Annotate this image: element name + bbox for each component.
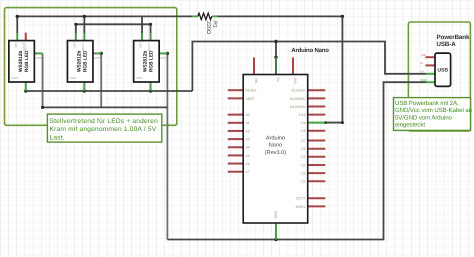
junction VDD1 on H1: [24, 89, 27, 92]
svg-text:AREF: AREF: [246, 97, 255, 101]
svg-text:D7: D7: [301, 139, 305, 143]
pin 4 connected: [426, 81, 435, 83]
svg-text:DIN: DIN: [73, 43, 77, 48]
wire DOUT2 drop to data line: [83, 16, 85, 33]
wire ground link H3: [43, 106, 168, 108]
LED U2 body: [67, 41, 93, 82]
svg-text:A6: A6: [246, 162, 250, 166]
svg-text:Arduino: Arduino: [266, 135, 285, 142]
svg-text:D-: D-: [421, 61, 424, 65]
svg-text:eingesteckt: eingesteckt: [395, 122, 425, 129]
LED U1 pin DOUT unconnected: [25, 33, 27, 41]
junction VSS1 bottom bend: [41, 106, 44, 109]
svg-text:D9: D9: [301, 121, 305, 125]
svg-text:A0: A0: [246, 113, 250, 117]
wire 5V riser and top run to USB: [192, 42, 426, 92]
pin labels top: [254, 78, 297, 84]
svg-text:A3: A3: [246, 138, 250, 142]
junction chain wire right bend: [149, 23, 152, 26]
svg-text:A1: A1: [246, 121, 250, 125]
LED U1 body: [9, 41, 34, 82]
svg-text:A4: A4: [246, 146, 250, 150]
annotation box LEDs: [47, 114, 161, 142]
svg-text:RGB LED: RGB LED: [83, 50, 89, 72]
svg-text:VDD: VDD: [70, 76, 77, 80]
LED U3 pin VDD: [150, 82, 152, 91]
svg-text:RGB LED: RGB LED: [24, 50, 30, 72]
svg-text:USB-A: USB-A: [437, 41, 457, 48]
svg-text:D3: D3: [301, 172, 305, 176]
svg-text:D8: D8: [301, 129, 305, 133]
junction 5V node on top run: [274, 40, 277, 43]
junction VDD3 on H1: [149, 89, 152, 92]
svg-text:VDD: VDD: [136, 76, 143, 80]
svg-text:D12/MISO: D12/MISO: [290, 97, 306, 101]
svg-text:VIN: VIN: [254, 78, 258, 84]
LED U1 WS2812b: [9, 33, 43, 91]
svg-text:A5: A5: [246, 154, 250, 158]
svg-text:D13/SCK: D13/SCK: [291, 89, 306, 93]
junction 5V pin top: [274, 56, 277, 59]
svg-text:+5V: +5V: [421, 53, 426, 57]
pin VIN: [253, 57, 255, 74]
LED U2 WS2812b: [67, 33, 101, 91]
svg-text:A2: A2: [246, 129, 250, 133]
svg-text:WS2812b: WS2812b: [18, 51, 24, 72]
pin 3V3: [292, 57, 294, 74]
svg-text:Arduino Nano: Arduino Nano: [291, 47, 329, 54]
svg-text:DOUT: DOUT: [147, 42, 151, 51]
left pins RESET..A7: [228, 90, 243, 172]
wire VSS1 down: [42, 53, 44, 107]
svg-text:220Ω: 220Ω: [205, 21, 211, 34]
svg-text:D2: D2: [301, 180, 305, 184]
svg-text:5V: 5V: [276, 78, 280, 83]
pin labels right: [290, 89, 307, 209]
pin 2 D-: [425, 64, 435, 66]
svg-text:VDD: VDD: [12, 76, 19, 80]
wire VSS3 down to ground rail: [166, 53, 168, 239]
annotation box USB Powerbank: [394, 98, 473, 131]
LED U1 pin VSS: [34, 52, 42, 54]
resistor R1 220 ohm: [198, 13, 212, 19]
svg-text:Kram mit angenommen 1.00A / 5V: Kram mit angenommen 1.00A / 5V: [50, 126, 157, 133]
pin 5V connected: [275, 57, 277, 74]
wire resistor left lead: [192, 15, 198, 17]
frame around LED group: [5, 8, 177, 126]
svg-text:D4: D4: [301, 163, 305, 167]
wire DIN3 drop to data line: [141, 16, 143, 33]
svg-text:GND: GND: [274, 211, 278, 219]
LED U1 pin VDD: [25, 82, 27, 91]
svg-text:WS2812b: WS2812b: [143, 51, 149, 72]
LED U3 pin VSS: [159, 52, 167, 54]
LED U2 pin VDD: [83, 82, 85, 91]
LED U3 body: [134, 41, 160, 82]
junction chain wire left bend: [74, 23, 77, 26]
svg-text:Nano: Nano: [269, 143, 282, 149]
svg-text:D5: D5: [301, 155, 305, 159]
USB connector J1: [421, 34, 470, 86]
svg-text:VSS: VSS: [160, 56, 166, 60]
pin D9 connected: [308, 122, 326, 124]
arduino body: [243, 75, 308, 224]
svg-text:D1/TX: D1/TX: [296, 197, 306, 201]
svg-text:DIN: DIN: [14, 43, 18, 48]
pin GND connected: [275, 223, 277, 240]
svg-text:PowerBank: PowerBank: [437, 34, 470, 41]
svg-text:Stellvertretend für LEDs + and: Stellvertretend für LEDs + anderen: [50, 118, 159, 125]
svg-text:3V3: 3V3: [293, 78, 297, 84]
Arduino Nano U4: [228, 47, 329, 239]
wire 5V rail H1 under LEDs: [26, 90, 193, 92]
pin 1 +5V: [425, 56, 435, 58]
svg-text:Last.: Last.: [50, 135, 65, 142]
junction GND node on bottom rail: [274, 238, 277, 241]
LED U2 pin DIN: [75, 33, 77, 40]
svg-text:WS2812b: WS2812b: [77, 51, 83, 72]
svg-text:DOUT: DOUT: [81, 42, 85, 51]
LED U3 WS2812b: [134, 33, 168, 91]
junction VDD2 on H1: [83, 89, 86, 92]
wire resistor right lead: [212, 15, 218, 17]
junction D9 riser corner: [341, 121, 344, 124]
junction VSS2 bend: [100, 52, 103, 55]
svg-text:D+: D+: [421, 69, 425, 73]
svg-text:GND/Vcc vom USB-Kabel an: GND/Vcc vom USB-Kabel an: [395, 107, 472, 114]
pin 3 connected: [426, 73, 435, 75]
svg-text:D6: D6: [301, 147, 305, 151]
junction VSS3 bend: [166, 52, 169, 55]
junction D9 wire joint: [324, 121, 327, 124]
LED U3 pin DIN: [141, 33, 143, 40]
wire DIN2 to DOUT3 chain: [76, 24, 151, 33]
usb body: [435, 53, 451, 86]
right pins D13..D0: [308, 90, 326, 206]
svg-text:D0/RX: D0/RX: [296, 205, 307, 209]
junction riser corner top right: [341, 15, 344, 18]
wire D9 to vertical riser: [325, 122, 342, 124]
svg-text:5V/GND vom Arduino: 5V/GND vom Arduino: [395, 114, 453, 121]
svg-text:VSS: VSS: [36, 56, 42, 60]
svg-text:DOUT: DOUT: [22, 42, 26, 51]
svg-text:DIN: DIN: [139, 43, 143, 48]
wire VSS2 down: [100, 53, 102, 107]
pin labels left: [246, 89, 257, 175]
svg-text:USB Powerbank mit 2A,: USB Powerbank mit 2A,: [395, 100, 459, 107]
svg-text:VSS: VSS: [94, 56, 100, 60]
svg-text:A7: A7: [246, 170, 250, 174]
svg-text:D11/MOSI: D11/MOSI: [290, 105, 306, 109]
svg-text:RGB LED: RGB LED: [149, 50, 155, 72]
svg-text:(Rev3.0): (Rev3.0): [265, 149, 287, 156]
LED U1 pin DIN: [16, 33, 18, 40]
LED U3 pin DOUT: [150, 33, 152, 40]
svg-text:GND: GND: [421, 78, 427, 82]
svg-text:USB: USB: [438, 68, 449, 74]
LED U2 pin DOUT: [83, 33, 85, 40]
svg-text:R1: R1: [212, 21, 218, 28]
wire GND bottom rail to USB: [167, 82, 426, 239]
svg-text:RESET: RESET: [246, 89, 257, 93]
junction LED1 DIN corner: [16, 15, 19, 18]
LED U2 pin VSS: [93, 52, 101, 54]
wire 5V drop to Arduino 5V pin: [275, 42, 277, 58]
junction DOUT2 on data line: [83, 15, 86, 18]
frame around PowerBank group: [408, 22, 470, 131]
svg-text:D10: D10: [299, 113, 305, 117]
wire data line D9 to LED1 DIN via R1: [17, 16, 342, 122]
